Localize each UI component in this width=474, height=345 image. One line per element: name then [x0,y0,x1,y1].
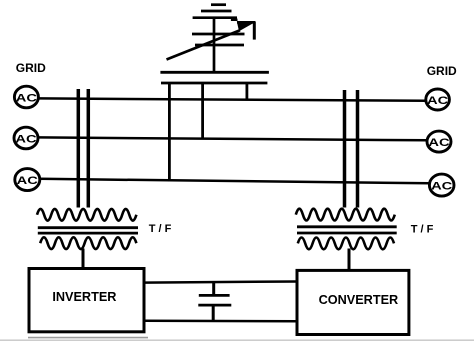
svg-text:CONVERTER: CONVERTER [319,293,399,307]
svg-text:INVERTER: INVERTER [52,290,116,304]
svg-text:GRID: GRID [427,64,457,78]
svg-text:AC: AC [428,137,449,149]
svg-text:AC: AC [431,180,452,192]
svg-text:AC: AC [15,133,36,145]
svg-text:GRID: GRID [16,61,46,75]
svg-text:AC: AC [427,95,448,107]
svg-text:T / F: T / F [149,223,172,235]
svg-text:T / F: T / F [411,224,434,236]
svg-text:AC: AC [16,92,37,104]
svg-text:AC: AC [17,175,38,187]
